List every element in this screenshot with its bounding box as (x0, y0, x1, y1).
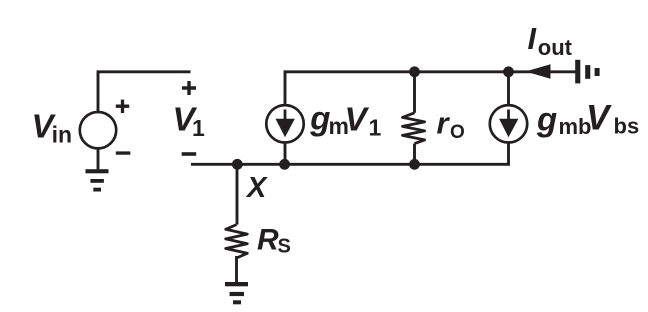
junction dot at gm source bottom (279, 159, 290, 170)
svg-text:bs: bs (614, 114, 640, 139)
wire rO bottom lead (413, 144, 416, 165)
value label RS (257, 224, 291, 258)
junction dot gmb top (503, 66, 514, 77)
svg-text:out: out (538, 35, 573, 60)
polarity + of Vin (116, 100, 129, 113)
svg-text:g: g (309, 100, 330, 137)
arrow Iout (current direction into node) (526, 64, 551, 78)
voltage source Vin (circle) (80, 112, 116, 148)
ground (below Vin) (86, 169, 109, 191)
resistor RS (226, 225, 248, 258)
svg-text:r: r (437, 106, 451, 141)
polarity + of V1 (182, 81, 196, 95)
value label gmbVbs (536, 98, 639, 139)
wire RS bottom lead to ground (235, 256, 238, 282)
junction dot rO top (409, 66, 420, 77)
polarity - of Vin (116, 151, 131, 154)
current source gmbVbs (circle) (490, 105, 527, 142)
arrow inside gmV1 source (276, 110, 295, 138)
wire RS top lead from node X (236, 164, 239, 224)
label V1 (173, 101, 206, 141)
junction dot rO bottom (409, 159, 420, 170)
resistor rO (403, 113, 425, 144)
svg-text:R: R (257, 224, 279, 257)
svg-text:X: X (245, 172, 268, 204)
label Iout (528, 22, 573, 60)
wire rO top lead (413, 72, 416, 113)
node X junction dot (232, 159, 243, 170)
wire top rail (285, 72, 575, 105)
svg-text:V: V (345, 101, 370, 138)
ground (below RS) (225, 282, 248, 304)
svg-text:1: 1 (192, 115, 205, 141)
wire gmb source top stub (507, 72, 510, 105)
value label rO (437, 106, 465, 143)
label Vin (32, 108, 73, 148)
ground (sideways, at output) (575, 60, 599, 84)
svg-text:I: I (528, 22, 537, 56)
current source gmV1 (circle) (266, 105, 303, 142)
svg-text:g: g (536, 101, 557, 138)
svg-text:V: V (586, 98, 612, 137)
svg-text:S: S (278, 236, 291, 258)
svg-text:O: O (450, 122, 465, 143)
polarity - of V1 (182, 152, 197, 156)
wire bottom rail through node X (191, 142, 509, 164)
svg-text:1: 1 (369, 115, 382, 141)
wire Vin bottom stub to ground (97, 148, 100, 169)
arrow inside gmbVbs source (499, 110, 518, 138)
svg-text:in: in (52, 122, 72, 148)
wire Vin top to V1 + terminal (98, 72, 191, 111)
wire gm source bottom stub (284, 142, 287, 164)
value label gmV1 (309, 100, 381, 141)
